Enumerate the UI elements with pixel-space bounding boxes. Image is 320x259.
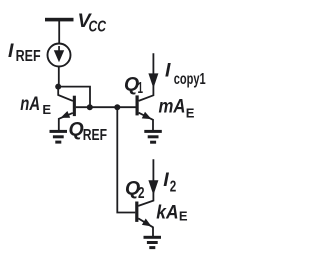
svg-text:copy1: copy1 [174, 71, 206, 88]
svg-text:I: I [8, 40, 14, 62]
svg-text:nA: nA [20, 93, 40, 115]
svg-text:2: 2 [170, 179, 177, 196]
svg-text:I: I [163, 169, 169, 191]
svg-text:2: 2 [138, 185, 145, 202]
svg-text:1: 1 [138, 80, 144, 97]
svg-text:kA: kA [156, 201, 178, 223]
svg-text:E: E [42, 102, 51, 117]
svg-text:REF: REF [83, 127, 107, 144]
svg-text:REF: REF [16, 48, 41, 65]
svg-text:E: E [186, 105, 195, 120]
svg-text:E: E [179, 209, 188, 224]
svg-text:I: I [165, 59, 171, 81]
svg-text:Q: Q [69, 118, 84, 140]
svg-text:mA: mA [159, 95, 186, 117]
svg-text:CC: CC [89, 18, 107, 35]
